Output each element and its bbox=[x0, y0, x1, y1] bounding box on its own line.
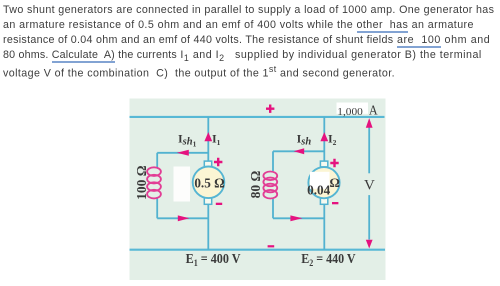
minus bottom bus bbox=[268, 245, 275, 247]
wire: generator 2 armature branch bbox=[323, 117, 325, 250]
minus G1 bbox=[216, 203, 222, 205]
minus G2 bbox=[332, 202, 338, 204]
svg-text:100 Ω: 100 Ω bbox=[134, 165, 149, 200]
svg-text:Ω: Ω bbox=[329, 175, 339, 190]
circuit figure bbox=[129, 98, 386, 281]
arrow load down bbox=[366, 240, 373, 249]
resistor: shunt field coil 80 ohm bbox=[263, 172, 277, 199]
generator G2 armature 0.04 ohm bbox=[307, 161, 340, 204]
resistor: shunt field coil 100 ohm bbox=[147, 167, 161, 198]
arrow load up bbox=[366, 118, 373, 128]
arrow field1 bottom right bbox=[178, 215, 190, 221]
generator G1 armature 0.5 ohm bbox=[193, 161, 225, 204]
arrow field2 bottom right bbox=[290, 215, 302, 221]
figure texts bbox=[134, 104, 378, 269]
svg-text:80 Ω: 80 Ω bbox=[248, 170, 263, 198]
polarity signs bbox=[214, 105, 339, 248]
arrow I2 up bbox=[320, 132, 328, 141]
wire: top positive bus bbox=[130, 116, 385, 118]
arrow I1 up bbox=[204, 132, 212, 141]
svg-text:A: A bbox=[369, 104, 379, 119]
arrow Ish1 left bbox=[177, 150, 189, 156]
plus top bus bbox=[266, 105, 274, 113]
svg-text:0.5 Ω: 0.5 Ω bbox=[194, 175, 224, 190]
figure background bbox=[130, 99, 386, 281]
wire: bottom negative bus bbox=[130, 249, 386, 251]
wire: generator 1 armature branch bbox=[207, 117, 209, 250]
svg-text:1,000: 1,000 bbox=[337, 107, 363, 118]
plus G1 bbox=[214, 158, 222, 166]
wire: generator 2 shunt field loop bbox=[273, 151, 324, 218]
white patch 1000 label bbox=[337, 103, 369, 114]
white patch artifact left bbox=[174, 167, 191, 202]
load V measurement line bbox=[368, 127, 370, 240]
svg-text:0.04: 0.04 bbox=[307, 182, 330, 197]
svg-text:V: V bbox=[364, 178, 375, 194]
arrow Ish2 left bbox=[294, 148, 305, 154]
problem statement paragraph bbox=[3, 3, 494, 77]
plus G2 bbox=[330, 159, 338, 167]
wire: generator 1 shunt field loop bbox=[157, 153, 208, 219]
